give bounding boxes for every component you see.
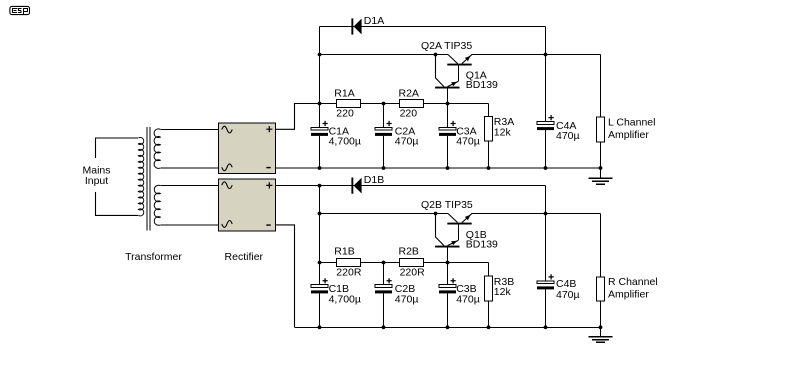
svg-text:R1A: R1A xyxy=(334,88,354,100)
junction dots A xyxy=(318,53,603,170)
label Q2B TIP35 xyxy=(421,199,473,211)
label C3A xyxy=(456,125,480,147)
label C3B xyxy=(456,283,480,305)
capacitor C3A xyxy=(439,104,456,169)
svg-text:D1A: D1A xyxy=(364,15,384,27)
svg-text:470µ: 470µ xyxy=(556,289,580,301)
transformer T1 core xyxy=(147,127,150,231)
svg-text:Amplifier: Amplifier xyxy=(608,129,649,141)
ground A xyxy=(589,168,613,184)
capacitor C1A xyxy=(311,104,328,169)
svg-text:4,700µ: 4,700µ xyxy=(329,293,361,305)
resistor R2B xyxy=(400,259,424,267)
svg-text:R1B: R1B xyxy=(334,245,354,257)
label Q1A xyxy=(466,69,498,91)
diode D1A xyxy=(351,18,361,34)
wire ground rail B xyxy=(295,326,601,328)
label Q1B xyxy=(466,229,498,251)
label R1A xyxy=(334,88,354,120)
capacitor C2A xyxy=(375,104,392,169)
svg-text:470µ: 470µ xyxy=(395,136,419,148)
svg-text:220: 220 xyxy=(336,108,354,120)
resistor R1A xyxy=(336,100,360,108)
wire top rail (diode bypass) A xyxy=(320,27,546,104)
resistor R3B xyxy=(485,276,493,301)
svg-text:470µ: 470µ xyxy=(456,293,480,305)
wire filter chain B xyxy=(320,263,489,328)
svg-text:R2A: R2A xyxy=(399,88,419,100)
svg-text:BD139: BD139 xyxy=(466,239,498,251)
wire filter chain A xyxy=(320,104,489,169)
junction dots B xyxy=(318,184,603,329)
rectifier BR2 xyxy=(219,179,276,231)
transistor Q1B BD139 xyxy=(435,214,459,263)
capacitor C3B xyxy=(439,263,456,328)
svg-text:BD139: BD139 xyxy=(466,79,498,91)
transistor Q2B TIP35 xyxy=(447,214,471,241)
diode D1B xyxy=(351,178,361,194)
svg-text:470µ: 470µ xyxy=(556,130,580,142)
ESP logo xyxy=(10,6,30,14)
svg-text:220R: 220R xyxy=(336,267,362,279)
transistor Q1A BD139 xyxy=(435,55,459,104)
rectifier BR1 xyxy=(219,123,276,174)
transformer T1 primary winding xyxy=(138,137,143,215)
svg-text:Transformer: Transformer xyxy=(125,251,182,263)
label R3B xyxy=(494,276,514,298)
label R Channel amplifier xyxy=(608,276,658,301)
label R3A xyxy=(494,116,514,138)
label L Channel amplifier xyxy=(608,116,655,141)
svg-text:220: 220 xyxy=(400,108,418,120)
svg-text:220R: 220R xyxy=(400,267,426,279)
svg-text:470µ: 470µ xyxy=(395,293,419,305)
wire riser B xyxy=(319,186,321,263)
label C2B xyxy=(395,283,419,305)
svg-text:Rectifier: Rectifier xyxy=(225,251,264,263)
label D1A xyxy=(364,15,384,27)
label R2A xyxy=(399,88,419,120)
transformer T1 secondary winding 1 xyxy=(154,129,218,168)
label C4A xyxy=(556,120,580,142)
capacitor C4B xyxy=(537,214,554,328)
wire output rail B xyxy=(472,213,601,215)
label C1A xyxy=(329,125,361,147)
wire mains input loop xyxy=(96,138,139,215)
wire output rail A xyxy=(472,54,601,56)
wire top rail (diode bypass) B xyxy=(275,186,546,214)
svg-text:R2B: R2B xyxy=(399,245,419,257)
load L Channel amplifier xyxy=(596,55,604,169)
svg-text:470µ: 470µ xyxy=(456,136,480,148)
wire raw rail B xyxy=(320,213,449,215)
svg-text:12k: 12k xyxy=(494,286,512,298)
label C1B xyxy=(329,283,361,305)
capacitor C1B xyxy=(311,263,328,328)
wire rectifier 2 - output riser xyxy=(275,225,295,327)
svg-text:4,700µ: 4,700µ xyxy=(329,136,361,148)
transistor Q2A TIP35 xyxy=(447,55,471,82)
label C2A xyxy=(395,125,419,147)
label D1B xyxy=(364,174,384,186)
label R1B xyxy=(334,245,362,278)
ground B xyxy=(589,327,613,342)
label Q2A TIP35 xyxy=(421,40,472,52)
wire ground rail A xyxy=(275,167,601,169)
label Rectifier xyxy=(225,251,264,263)
svg-text:Amplifier: Amplifier xyxy=(608,289,649,301)
svg-text:Q2B TIP35: Q2B TIP35 xyxy=(421,199,473,211)
label C4B xyxy=(556,278,580,301)
svg-text:L Channel: L Channel xyxy=(608,116,655,128)
resistor R1B xyxy=(336,259,360,267)
svg-text:12k: 12k xyxy=(494,126,512,138)
label Transformer xyxy=(125,251,182,263)
label R2B xyxy=(399,245,426,278)
resistor R2A xyxy=(400,100,424,108)
svg-text:Input: Input xyxy=(85,175,108,187)
wire raw rail A xyxy=(320,54,449,56)
svg-text:R Channel: R Channel xyxy=(608,276,658,288)
resistor R3A xyxy=(485,117,493,142)
transformer T1 secondary winding 2 xyxy=(154,185,218,225)
svg-text:Q2A TIP35: Q2A TIP35 xyxy=(421,40,472,52)
capacitor C2B xyxy=(375,263,392,328)
capacitor C4A xyxy=(537,55,554,169)
svg-text:D1B: D1B xyxy=(364,174,384,186)
load R Channel amplifier xyxy=(596,214,604,328)
label Mains Input xyxy=(82,158,110,192)
wire rectifier 1 + output to filter node xyxy=(275,104,320,130)
